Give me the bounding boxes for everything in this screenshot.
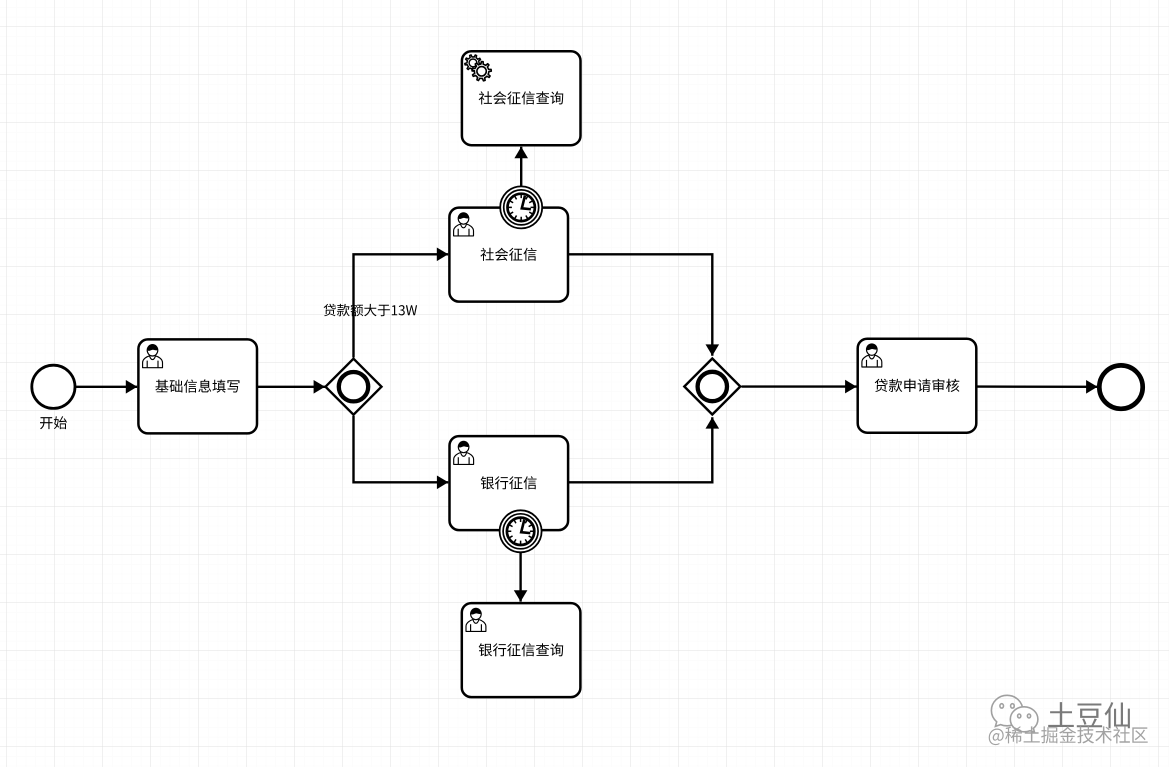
task 银行征信	[450, 436, 569, 530]
wire 贷款申请审核->end	[978, 380, 1098, 394]
inclusive gateway G2	[684, 359, 740, 415]
start event 开始	[32, 365, 75, 429]
wire 社会征信->gateway2	[568, 254, 719, 355]
watermark text 土豆仙	[1048, 702, 1130, 728]
wire gateway1->社会征信 (top branch)	[354, 248, 449, 358]
inclusive gateway G1	[326, 359, 382, 415]
label 贷款额大于13W	[324, 304, 418, 317]
boundary timer event	[500, 510, 542, 552]
wire 银行征信->gateway2	[568, 417, 719, 482]
end event	[1099, 365, 1142, 408]
wire 基础信息填写->gateway1	[257, 380, 325, 394]
boundary timer event	[500, 186, 542, 228]
wire gateway1->银行征信 (bottom branch)	[354, 416, 449, 489]
watermark logo (two chat bubbles)	[991, 695, 1038, 732]
wire start->基础信息填写	[76, 380, 137, 394]
wire gateway2->贷款申请审核	[742, 380, 857, 394]
wire timer1->社会征信查询	[514, 147, 528, 186]
task 社会征信查询	[462, 51, 581, 145]
task 贷款申请审核	[858, 339, 977, 433]
task 基础信息填写	[138, 339, 257, 433]
watermark text @稀土掘金技术社区	[989, 726, 1148, 745]
wire timer2->银行征信查询	[514, 553, 528, 602]
task 银行征信查询	[462, 603, 581, 697]
task 社会征信	[449, 208, 568, 302]
